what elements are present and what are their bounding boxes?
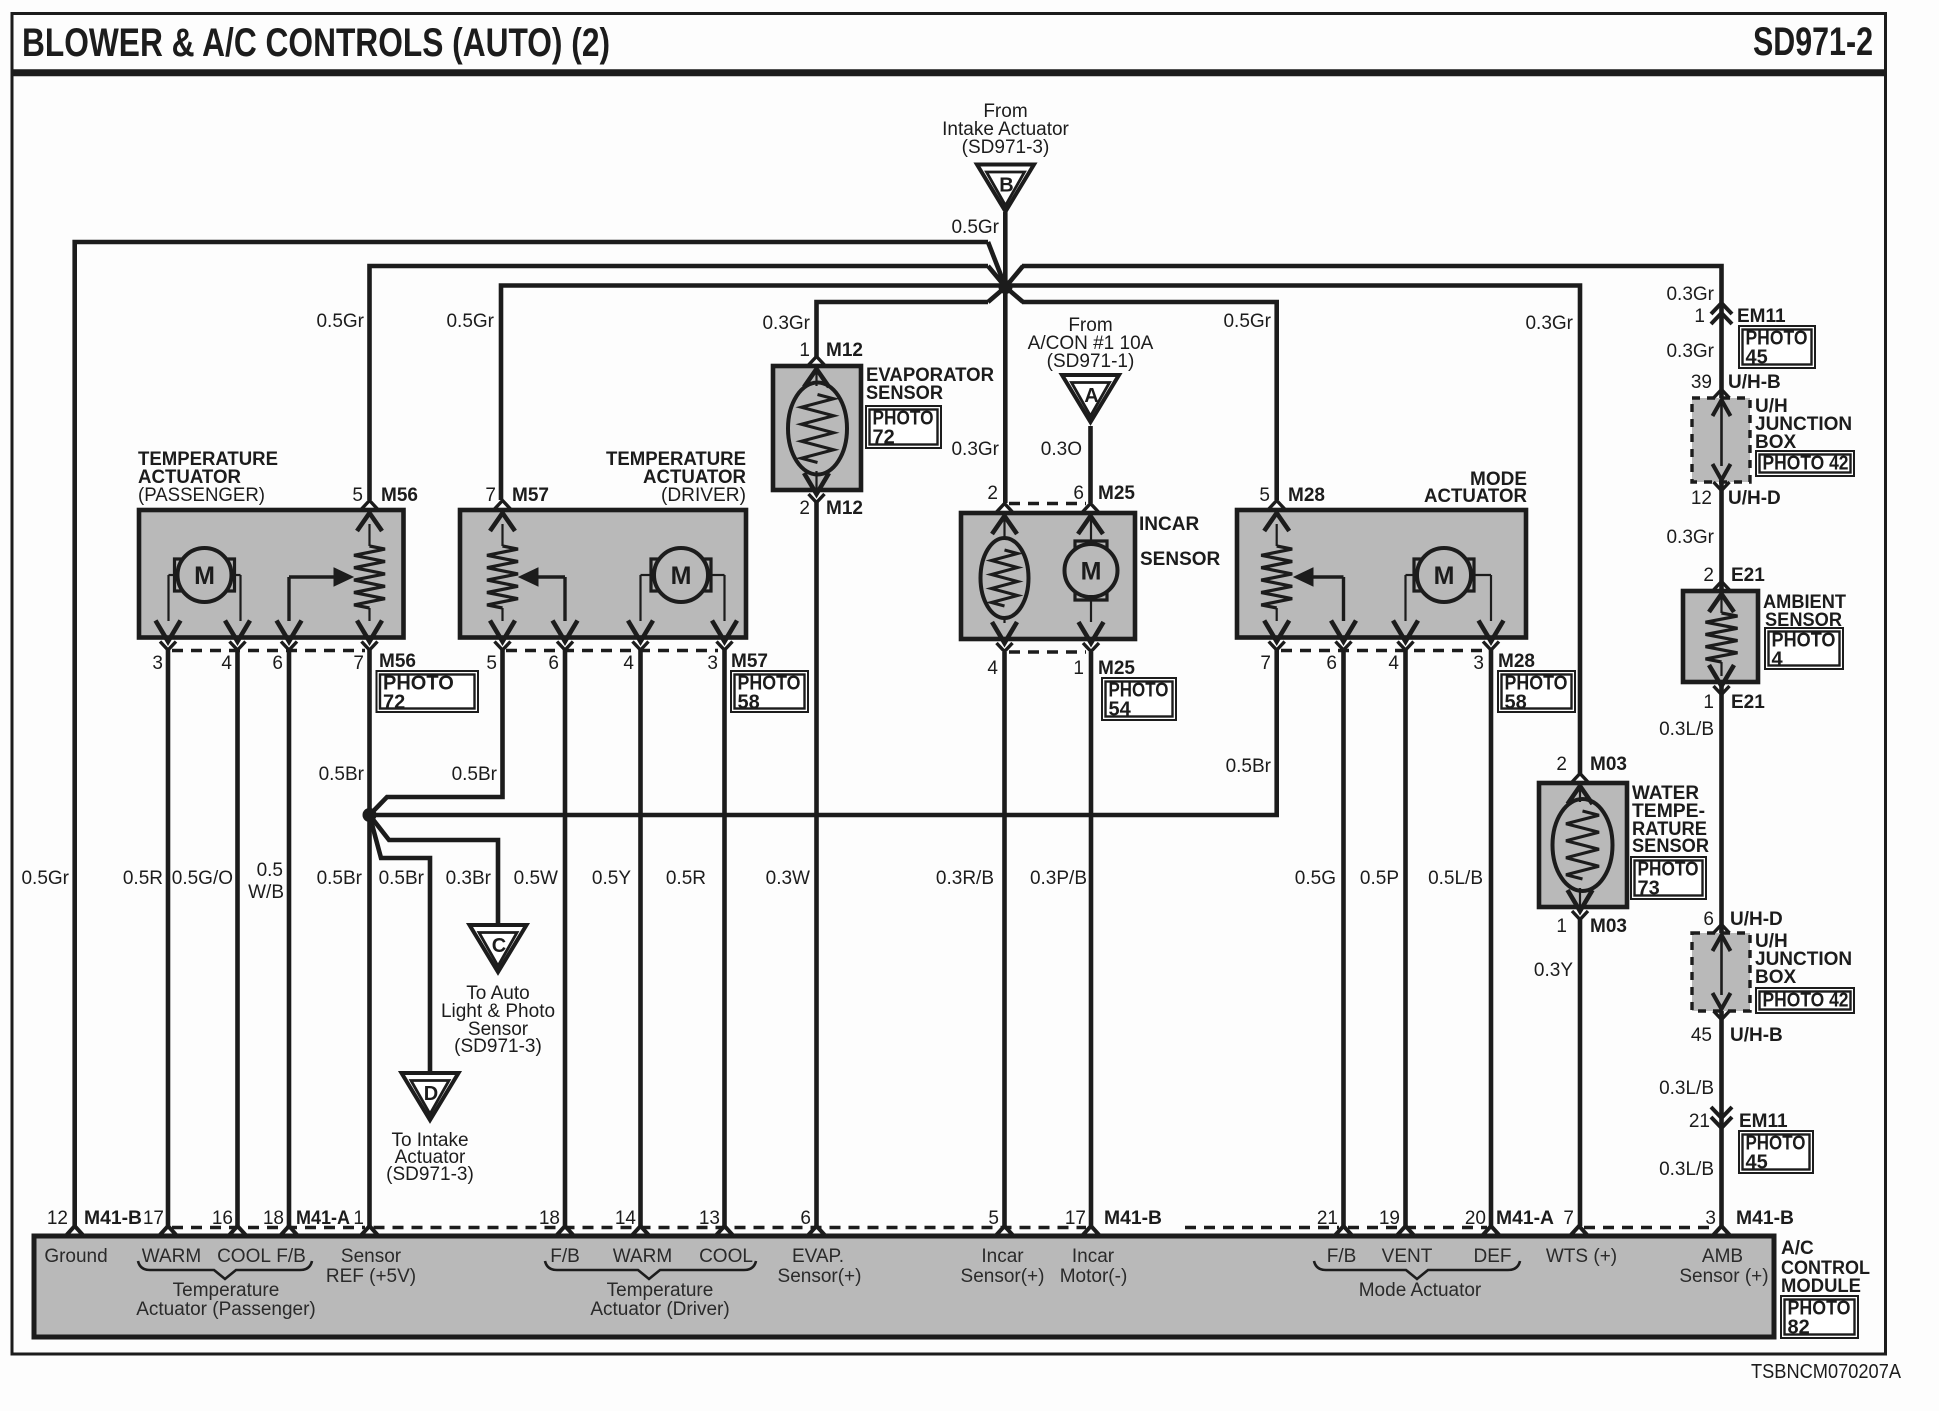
svg-text:1: 1 <box>1556 916 1567 937</box>
svg-text:0.3O: 0.3O <box>1041 439 1082 460</box>
svg-text:COOL: COOL <box>217 1246 271 1267</box>
svg-text:REF (+5V): REF (+5V) <box>326 1266 416 1287</box>
resistor symbol ambient sensor <box>1720 596 1722 613</box>
svg-text:M12: M12 <box>826 340 863 361</box>
wire 0.5G/O M56 pin 4 to module pin 16 <box>235 650 240 1226</box>
svg-text:Mode Actuator: Mode Actuator <box>1359 1280 1482 1301</box>
svg-text:M03: M03 <box>1590 916 1627 937</box>
evaporator sensor box M12 <box>773 366 861 490</box>
svg-text:82: 82 <box>1788 1317 1810 1339</box>
water temperature sensor box M03 <box>1539 783 1627 907</box>
svg-text:0.3R/B: 0.3R/B <box>936 868 994 889</box>
wire 0.5L/B mode actuator pin 3 to module pin 20 <box>1489 650 1494 1226</box>
svg-text:72: 72 <box>873 427 895 449</box>
wire 0.5Gr splice X down-right to M28 pin 5 drop <box>1006 287 1024 302</box>
svg-text:TSBNCM070207A: TSBNCM070207A <box>1751 1361 1902 1383</box>
svg-text:7: 7 <box>1563 1208 1574 1229</box>
svg-text:M25: M25 <box>1098 658 1135 679</box>
svg-text:Ground: Ground <box>44 1246 107 1267</box>
temperature actuator driver box M57 <box>460 510 746 638</box>
potentiometer resistor in passenger actuator <box>368 524 370 546</box>
svg-text:0.5R: 0.5R <box>666 868 706 889</box>
svg-text:WARM: WARM <box>142 1246 201 1267</box>
svg-text:(DRIVER): (DRIVER) <box>661 485 746 506</box>
svg-text:6: 6 <box>1326 653 1337 674</box>
svg-text:5: 5 <box>486 653 497 674</box>
svg-text:BOX: BOX <box>1755 432 1797 453</box>
pin 1 M03 glyph <box>1568 890 1593 911</box>
svg-text:4: 4 <box>1772 649 1784 671</box>
wire 0.5Gr from M56 pin 5 up and right to splice X <box>370 266 989 500</box>
off-page triangle D To Intake Actuator <box>402 1073 459 1120</box>
svg-text:0.5P: 0.5P <box>1360 868 1399 889</box>
svg-text:4: 4 <box>221 653 232 674</box>
svg-text:7: 7 <box>1260 653 1271 674</box>
svg-text:F/B: F/B <box>550 1246 580 1267</box>
wire 0.5W/B M56 pin 6 to module pin 18 <box>287 650 292 1226</box>
connector dashes M56 <box>172 649 365 652</box>
svg-text:0.3Gr: 0.3Gr <box>762 313 810 334</box>
photo 45 reference box EM11 <box>1739 326 1815 368</box>
svg-text:0.5G: 0.5G <box>1295 868 1336 889</box>
svg-text:20: 20 <box>1465 1208 1486 1229</box>
wire 0.5R M57 pin 3 to module pin 13 <box>722 650 727 1226</box>
svg-text:4: 4 <box>987 658 998 679</box>
svg-text:73: 73 <box>1638 878 1660 900</box>
svg-text:F/B: F/B <box>1327 1246 1357 1267</box>
svg-text:0.5Gr: 0.5Gr <box>21 868 69 889</box>
svg-text:A: A <box>1084 385 1098 407</box>
svg-text:2: 2 <box>799 498 810 519</box>
svg-text:14: 14 <box>615 1208 637 1229</box>
svg-text:0.5R: 0.5R <box>123 868 163 889</box>
U/H junction box upper (dashed) <box>1692 398 1750 482</box>
wire 0.3P/B incar motor pin 1 to module pin 17 <box>1089 652 1094 1226</box>
svg-text:2: 2 <box>987 483 998 504</box>
svg-text:U/H-D: U/H-D <box>1728 488 1781 509</box>
wire 0.5R M56 pin 3 to module pin 17 <box>166 650 171 1226</box>
svg-text:45: 45 <box>1691 1025 1712 1046</box>
svg-text:(SD971-1): (SD971-1) <box>1047 351 1135 372</box>
svg-text:0.5Br: 0.5Br <box>452 764 498 785</box>
connector dashes M28 <box>1281 649 1484 652</box>
svg-text:0.5Br: 0.5Br <box>1226 756 1272 777</box>
U/H junction box lower (dashed) <box>1692 933 1750 1011</box>
wire 0.5P mode actuator pin 4 to module pin 19 <box>1403 650 1408 1226</box>
svg-text:0.5Br: 0.5Br <box>319 764 365 785</box>
mode actuator box M28 <box>1237 510 1526 638</box>
svg-text:E21: E21 <box>1731 565 1765 586</box>
svg-text:0.5Gr: 0.5Gr <box>316 311 364 332</box>
wire 0.3Gr evaporator sensor pin 1 up to splice X <box>817 302 989 357</box>
svg-text:7: 7 <box>353 653 364 674</box>
svg-text:0.3Gr: 0.3Gr <box>1666 341 1714 362</box>
brace temperature actuator driver <box>545 1261 756 1279</box>
svg-text:1: 1 <box>353 1208 364 1229</box>
svg-text:0.3Gr: 0.3Gr <box>1525 313 1573 334</box>
svg-text:0.3Gr: 0.3Gr <box>951 439 999 460</box>
svg-text:5: 5 <box>352 485 363 506</box>
svg-text:A/C: A/C <box>1781 1238 1814 1259</box>
potentiometer resistor in driver actuator <box>501 524 503 546</box>
svg-text:0.5: 0.5 <box>257 860 283 881</box>
pin 2 E21 glyph <box>1714 582 1730 591</box>
pin 5 M28 top <box>1269 501 1285 510</box>
svg-text:6: 6 <box>548 653 559 674</box>
thermistor symbol incar <box>981 538 1029 618</box>
motor M in passenger actuator <box>178 548 232 602</box>
svg-text:M41-A: M41-A <box>296 1208 350 1229</box>
svg-text:7: 7 <box>485 485 496 506</box>
svg-text:(SD971-3): (SD971-3) <box>386 1164 474 1185</box>
svg-text:M28: M28 <box>1498 651 1535 672</box>
svg-text:M28: M28 <box>1288 485 1325 506</box>
svg-text:INCAR: INCAR <box>1139 514 1199 535</box>
svg-text:6: 6 <box>1703 909 1714 930</box>
motor lead wires mode <box>1406 574 1416 576</box>
svg-text:EM11: EM11 <box>1739 1111 1788 1132</box>
svg-text:M12: M12 <box>826 498 863 519</box>
svg-text:(SD971-3): (SD971-3) <box>454 1036 542 1057</box>
svg-text:Temperature: Temperature <box>173 1280 280 1301</box>
motor M mode actuator <box>1417 548 1471 602</box>
wire 0.3Br splice to triangle C <box>370 815 499 925</box>
svg-text:0.3W: 0.3W <box>766 868 810 889</box>
svg-text:4: 4 <box>623 653 634 674</box>
svg-text:ACTUATOR: ACTUATOR <box>1424 486 1527 507</box>
wire 0.3O triangle A to incar sensor pin 6 <box>1088 426 1093 503</box>
svg-text:21: 21 <box>1317 1208 1338 1229</box>
wire 0.5Gr from A/C module pin 12 up and right to splice X <box>75 242 988 1226</box>
wiper arrow from pin 6 driver <box>563 577 566 621</box>
in-line connector 21 EM11 <box>1711 1107 1732 1118</box>
svg-text:18: 18 <box>539 1208 560 1229</box>
svg-text:Incar: Incar <box>981 1246 1024 1267</box>
photo 4 reference box ambient <box>1765 628 1843 669</box>
svg-text:Incar: Incar <box>1072 1246 1115 1267</box>
wire 0.5Y M57 pin 4 to module pin 14 <box>638 650 643 1226</box>
svg-text:Sensor(+): Sensor(+) <box>778 1266 862 1287</box>
photo 72 reference box evaporator <box>866 406 941 448</box>
svg-text:C: C <box>492 935 506 957</box>
svg-text:4: 4 <box>1388 653 1399 674</box>
svg-text:17: 17 <box>143 1208 164 1229</box>
photo 42 reference box lower <box>1756 988 1854 1013</box>
svg-text:0.5Gr: 0.5Gr <box>446 311 494 332</box>
svg-text:Sensor: Sensor <box>341 1246 402 1267</box>
svg-text:EM11: EM11 <box>1737 306 1786 327</box>
svg-text:18: 18 <box>263 1208 284 1229</box>
svg-text:M41-B: M41-B <box>84 1208 142 1229</box>
photo 58 reference box mode <box>1498 671 1575 712</box>
svg-text:16: 16 <box>212 1208 233 1229</box>
svg-text:3: 3 <box>152 653 163 674</box>
thermistor symbol water temp <box>1553 799 1613 891</box>
incar sensor box M25 <box>961 513 1135 639</box>
title separator line <box>11 69 1888 76</box>
svg-text:0.3Gr: 0.3Gr <box>1666 527 1714 548</box>
wire 0.3R/B incar sensor pin 4 to module pin 5 <box>1002 652 1007 1226</box>
pin 1 M12 top <box>809 357 825 366</box>
A/C control module box <box>34 1236 1774 1337</box>
photo 82 reference box <box>1781 1296 1858 1338</box>
motor lead wires driver <box>641 574 652 576</box>
pins 2 and 6 M25 top <box>997 504 1013 513</box>
wire 0.5Gr splice X right to mode actuator pin 5 <box>1006 266 1024 287</box>
photo 58 reference box <box>731 671 808 712</box>
svg-text:Sensor(+): Sensor(+) <box>961 1266 1045 1287</box>
thermistor symbol evaporator <box>788 383 847 475</box>
svg-text:0.3L/B: 0.3L/B <box>1659 1159 1714 1180</box>
in-line connector 1 EM11 <box>1711 303 1732 314</box>
svg-text:0.5Gr: 0.5Gr <box>1223 311 1271 332</box>
svg-text:M: M <box>1434 562 1455 590</box>
motor M incar aspirator <box>1065 544 1118 597</box>
svg-text:72: 72 <box>383 692 405 714</box>
svg-text:6: 6 <box>800 1208 811 1229</box>
svg-text:BLOWER & A/C CONTROLS (AUTO) (: BLOWER & A/C CONTROLS (AUTO) (2) <box>22 21 610 65</box>
svg-text:0.3Br: 0.3Br <box>446 868 492 889</box>
module connector dashed lines M41 <box>172 1226 365 1229</box>
svg-text:M: M <box>194 562 215 590</box>
svg-text:0.3P/B: 0.3P/B <box>1030 868 1087 889</box>
svg-text:0.3L/B: 0.3L/B <box>1659 719 1714 740</box>
wire 0.5Br splice right to mode actuator pin 7 <box>370 650 1277 815</box>
connector dashes M25 bottom <box>1009 650 1086 653</box>
wire 0.5W M57 pin 6 to module pin 18 <box>563 650 568 1226</box>
svg-text:Temperature: Temperature <box>607 1280 714 1301</box>
svg-text:0.5Br: 0.5Br <box>317 868 363 889</box>
svg-text:M: M <box>671 562 692 590</box>
svg-text:M41-B: M41-B <box>1104 1208 1162 1229</box>
svg-text:Sensor (+): Sensor (+) <box>1679 1266 1768 1287</box>
svg-text:1: 1 <box>1703 692 1714 713</box>
brace mode actuator <box>1314 1261 1520 1279</box>
pin 2 M03 glyph <box>1572 774 1588 783</box>
motor M in driver actuator <box>654 548 708 602</box>
pins 4 and 1 M25 bottom <box>992 622 1017 643</box>
svg-text:17: 17 <box>1065 1208 1086 1229</box>
wire 0.5Br splice to triangle D <box>370 815 431 1073</box>
splice junction dot sensor REF <box>363 808 377 822</box>
svg-text:12: 12 <box>47 1208 68 1229</box>
svg-text:Motor(-): Motor(-) <box>1060 1266 1128 1287</box>
svg-text:45: 45 <box>1746 347 1768 369</box>
wire 0.5Gr/0.3Gr from M57 pin 7 through splice to water temp sensor drop <box>501 286 1580 775</box>
temperature actuator passenger box M56 <box>139 510 404 638</box>
svg-text:SD971-2: SD971-2 <box>1753 20 1873 64</box>
svg-text:M: M <box>1081 558 1102 586</box>
module pin chevrons <box>65 1226 85 1237</box>
svg-text:WARM: WARM <box>613 1246 672 1267</box>
svg-text:M56: M56 <box>379 651 416 672</box>
motor lead wires <box>169 574 175 576</box>
svg-text:13: 13 <box>699 1208 720 1229</box>
photo 72 reference box <box>377 671 479 712</box>
svg-text:39: 39 <box>1691 372 1712 393</box>
svg-text:3: 3 <box>1473 653 1484 674</box>
svg-text:2: 2 <box>1556 754 1567 775</box>
off-page triangle C To Auto Light & Photo Sensor <box>470 925 527 972</box>
svg-text:0.3Y: 0.3Y <box>1534 960 1573 981</box>
pins 3 4 6 7 M56 bottom <box>156 621 181 642</box>
svg-text:F/B: F/B <box>276 1246 306 1267</box>
svg-text:VENT: VENT <box>1382 1246 1433 1267</box>
off-page triangle A From A/CON #1 10A <box>1062 375 1119 422</box>
connector dashes M57 <box>506 649 718 652</box>
wire 0.5Br splice to M57 pin 5 <box>370 650 503 815</box>
photo 45 reference box EM11 lower <box>1739 1131 1813 1173</box>
svg-text:0.5G/O: 0.5G/O <box>172 868 233 889</box>
wire 0.5Br M56 pin 7 down through splice to module pin 1 <box>367 650 372 1226</box>
wire 0.5G mode actuator pin 6 to module pin 21 <box>1341 650 1346 1226</box>
svg-text:SENSOR: SENSOR <box>1632 836 1709 857</box>
svg-text:54: 54 <box>1109 699 1132 721</box>
svg-text:MODULE: MODULE <box>1781 1276 1861 1297</box>
svg-text:45: 45 <box>1746 1152 1768 1174</box>
svg-text:AMB: AMB <box>1702 1246 1743 1267</box>
svg-text:58: 58 <box>738 692 760 714</box>
svg-text:M25: M25 <box>1098 483 1135 504</box>
svg-text:0.5Br: 0.5Br <box>379 868 425 889</box>
svg-text:E21: E21 <box>1731 692 1765 713</box>
svg-text:Actuator (Passenger): Actuator (Passenger) <box>136 1299 316 1320</box>
brace temperature actuator passenger <box>138 1261 312 1279</box>
svg-text:PHOTO 42: PHOTO 42 <box>1763 990 1849 1012</box>
svg-text:(PASSENGER): (PASSENGER) <box>138 485 265 506</box>
photo 73 reference box <box>1631 857 1706 899</box>
pin 5 M56 top <box>362 501 378 510</box>
svg-text:0.3Gr: 0.3Gr <box>1666 284 1714 305</box>
svg-text:5: 5 <box>988 1208 999 1229</box>
svg-text:1: 1 <box>1694 306 1705 327</box>
svg-text:21: 21 <box>1689 1111 1710 1132</box>
wiper arrow from pin 6 <box>287 577 290 621</box>
svg-text:0.5L/B: 0.5L/B <box>1428 868 1483 889</box>
svg-text:6: 6 <box>1073 483 1084 504</box>
svg-text:PHOTO 42: PHOTO 42 <box>1763 453 1849 475</box>
svg-text:W/B: W/B <box>248 882 284 903</box>
svg-text:M57: M57 <box>512 485 549 506</box>
svg-text:B: B <box>999 175 1013 197</box>
wiper arrow mode actuator <box>1342 577 1345 621</box>
svg-text:M41-B: M41-B <box>1736 1208 1794 1229</box>
svg-text:COOL: COOL <box>699 1246 753 1267</box>
svg-text:BOX: BOX <box>1755 967 1797 988</box>
svg-text:M41-A: M41-A <box>1496 1208 1554 1229</box>
ambient sensor box E21 <box>1683 591 1758 682</box>
wire 0.3W evaporator sensor pin 2 to module pin 6 <box>814 502 819 1226</box>
svg-text:(SD971-3): (SD971-3) <box>962 137 1050 158</box>
svg-text:58: 58 <box>1505 692 1527 714</box>
off-page triangle B From Intake Actuator <box>977 165 1034 212</box>
svg-text:5: 5 <box>1259 485 1270 506</box>
svg-text:6: 6 <box>272 653 283 674</box>
svg-text:SENSOR: SENSOR <box>866 383 943 404</box>
svg-text:M57: M57 <box>731 651 768 672</box>
svg-text:1: 1 <box>799 340 810 361</box>
svg-text:0.5Y: 0.5Y <box>592 868 631 889</box>
svg-text:U/H-D: U/H-D <box>1730 909 1783 930</box>
svg-text:12: 12 <box>1691 488 1712 509</box>
svg-text:0.5Gr: 0.5Gr <box>951 217 999 238</box>
svg-text:19: 19 <box>1379 1208 1400 1229</box>
svg-text:DEF: DEF <box>1474 1246 1512 1267</box>
splice junction dot <box>999 280 1013 294</box>
pins 7 6 4 3 M28 bottom <box>1264 621 1289 642</box>
svg-text:WTS (+): WTS (+) <box>1546 1246 1617 1267</box>
pin 7 M57 top <box>495 501 511 510</box>
connector dashes M25 top <box>1009 502 1086 505</box>
potentiometer resistor mode actuator <box>1276 524 1278 546</box>
svg-text:U/H-B: U/H-B <box>1728 372 1781 393</box>
svg-text:3: 3 <box>1705 1208 1716 1229</box>
pin 1 E21 glyph <box>1709 665 1734 686</box>
pin 2 M12 bottom <box>804 473 829 494</box>
photo 54 reference box <box>1102 678 1176 720</box>
svg-text:0.5W: 0.5W <box>514 868 558 889</box>
svg-text:SENSOR: SENSOR <box>1140 549 1221 570</box>
wire 0.3Y water temp sensor pin 1 to module pin 7 <box>1578 919 1583 1226</box>
photo 42 reference box upper <box>1756 451 1854 476</box>
wire 0.5Gr triangle B down through splice to incar sensor pin 2 <box>1003 212 1008 503</box>
svg-text:U/H-B: U/H-B <box>1730 1025 1783 1046</box>
svg-text:Actuator (Driver): Actuator (Driver) <box>590 1299 729 1320</box>
svg-text:M56: M56 <box>381 485 418 506</box>
svg-text:D: D <box>424 1083 438 1105</box>
svg-text:3: 3 <box>707 653 718 674</box>
svg-text:EVAP.: EVAP. <box>792 1246 844 1267</box>
svg-text:1: 1 <box>1073 658 1084 679</box>
svg-text:2: 2 <box>1703 565 1714 586</box>
pins 5 6 4 3 M57 bottom <box>490 621 515 642</box>
svg-text:0.3L/B: 0.3L/B <box>1659 1078 1714 1099</box>
svg-text:M03: M03 <box>1590 754 1627 775</box>
